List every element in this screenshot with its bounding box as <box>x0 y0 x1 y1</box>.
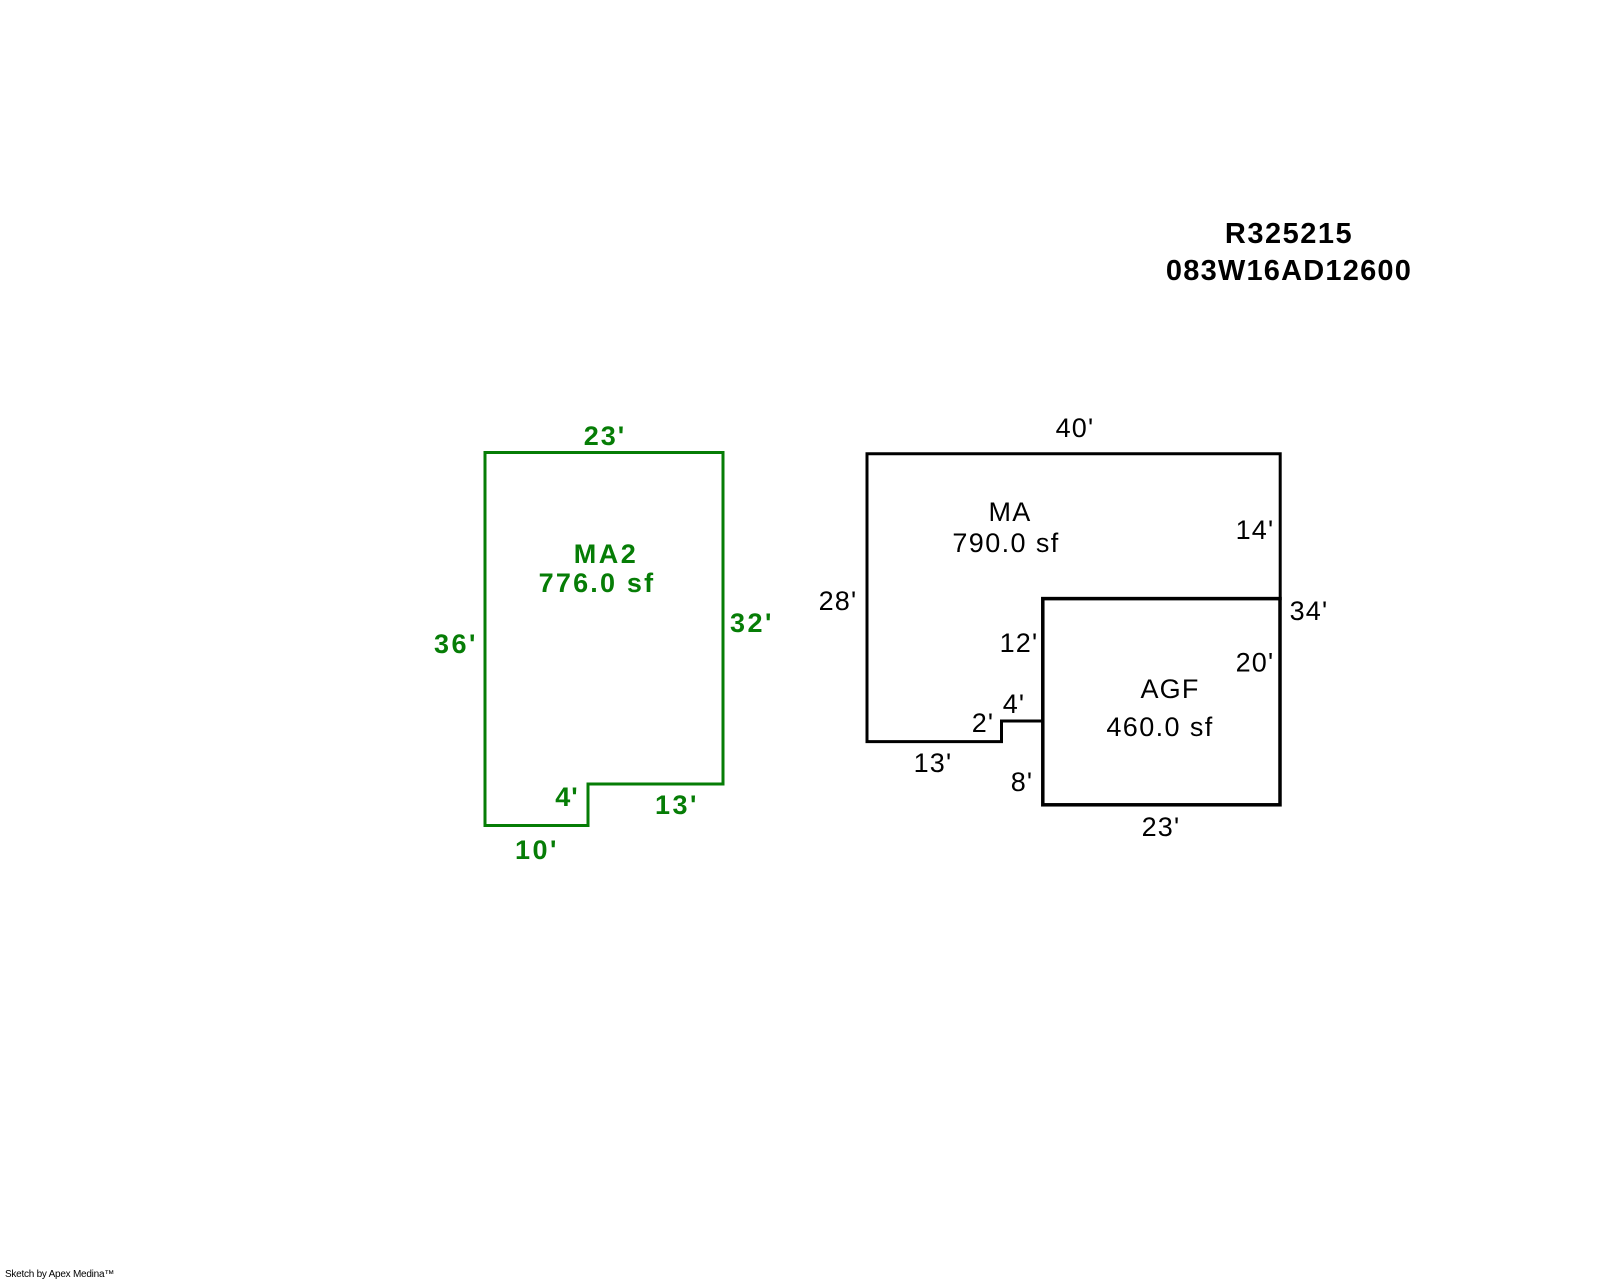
svg-text:AGF: AGF <box>1140 674 1199 704</box>
svg-text:13': 13' <box>655 790 699 820</box>
svg-text:776.0 sf: 776.0 sf <box>539 568 656 598</box>
svg-text:23': 23' <box>1142 812 1181 842</box>
svg-text:R325215: R325215 <box>1225 218 1353 250</box>
svg-text:23': 23' <box>584 421 626 451</box>
svg-text:4': 4' <box>1003 689 1026 719</box>
svg-text:34': 34' <box>1290 596 1329 626</box>
svg-text:13': 13' <box>914 748 953 778</box>
svg-text:2': 2' <box>972 708 995 738</box>
svg-text:28': 28' <box>819 586 858 616</box>
svg-text:12': 12' <box>1000 628 1039 658</box>
svg-text:MA2: MA2 <box>574 539 639 569</box>
svg-text:4': 4' <box>555 782 578 812</box>
svg-text:32': 32' <box>730 608 774 638</box>
svg-text:Sketch by Apex Medina™: Sketch by Apex Medina™ <box>5 1269 114 1280</box>
svg-text:40': 40' <box>1056 413 1095 443</box>
svg-text:460.0 sf: 460.0 sf <box>1106 712 1213 742</box>
svg-text:36': 36' <box>434 629 478 659</box>
svg-text:20': 20' <box>1236 648 1275 678</box>
svg-text:083W16AD12600: 083W16AD12600 <box>1166 255 1412 287</box>
svg-text:14': 14' <box>1236 515 1275 545</box>
svg-text:MA: MA <box>989 497 1032 527</box>
svg-text:10': 10' <box>515 835 559 865</box>
svg-text:8': 8' <box>1011 767 1034 797</box>
svg-text:790.0 sf: 790.0 sf <box>952 528 1059 558</box>
